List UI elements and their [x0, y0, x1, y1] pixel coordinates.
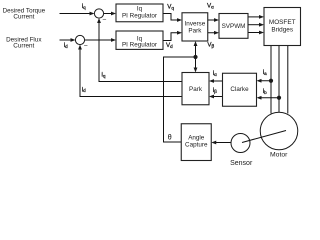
wire ia tap to Clarke: [258, 80, 271, 82]
arrowhead junction2 to B2: [111, 38, 116, 42]
PI regulator block B1: [116, 4, 163, 22]
svg-text:id: id: [64, 42, 68, 49]
svg-text:PI Regulator: PI Regulator: [122, 42, 157, 49]
svg-text:Vd: Vd: [166, 42, 173, 49]
wire motor phase a: [270, 46, 272, 114]
wire SVPWM to MOSFET 1: [248, 16, 263, 18]
wire Sensor to Angle Capture: [213, 142, 231, 144]
arrowhead theta into Park: [194, 68, 198, 73]
node dot ib tap: [277, 96, 281, 100]
arrowhead iq feedback into junction1: [97, 18, 101, 23]
wire theta Angle Capture to node A: [164, 57, 196, 142]
arrowhead Vbeta into SVPWM: [214, 31, 219, 35]
svg-text:ib: ib: [263, 88, 267, 95]
svg-text:Vq: Vq: [167, 4, 174, 11]
wire SVPWM to MOSFET 3: [248, 32, 263, 34]
wire Vbeta InversePark to SVPWM: [208, 32, 218, 34]
svg-text:Clarke: Clarke: [230, 86, 249, 93]
wire input id: [60, 39, 75, 41]
SVPWM block: [219, 14, 248, 39]
svg-text:SVPWM: SVPWM: [222, 23, 246, 30]
arrowhead theta into Inverse Park: [194, 41, 198, 46]
arrowhead MOSFET 1: [259, 15, 264, 19]
arrowhead input iq: [90, 12, 95, 16]
svg-text:iq: iq: [82, 3, 86, 10]
svg-text:PI Regulator: PI Regulator: [122, 13, 157, 20]
arrowhead Valpha into SVPWM: [214, 18, 219, 22]
sensor circle: [230, 134, 253, 168]
svg-text:Capture: Capture: [185, 142, 208, 149]
node A dot theta junction: [193, 55, 197, 59]
summing junction 2: [75, 35, 87, 49]
wire Valpha InversePark to SVPWM: [208, 19, 218, 21]
svg-text:Inverse: Inverse: [185, 20, 206, 27]
svg-text:iq: iq: [102, 71, 106, 78]
wire junction1 to B1: [104, 13, 115, 15]
PI regulator block B2: [116, 31, 163, 49]
wire theta node to Park: [195, 57, 197, 71]
wire input iq: [60, 13, 94, 15]
svg-text:MOSFET: MOSFET: [269, 19, 296, 26]
svg-text:θ: θ: [168, 135, 172, 142]
svg-text:Current: Current: [13, 43, 34, 50]
arrowhead input id: [71, 38, 76, 42]
MOSFET Bridges block: [264, 8, 301, 46]
Clarke block: [223, 73, 257, 106]
arrowhead ib into Clarke: [257, 96, 262, 100]
wire id feedback Park to junction2: [80, 46, 182, 96]
Inverse Park block: [182, 13, 208, 41]
shaft line Motor to Sensor: [242, 131, 286, 143]
svg-text:Park: Park: [188, 27, 202, 34]
svg-text:Sensor: Sensor: [230, 160, 253, 166]
wire motor phase b: [278, 46, 280, 113]
arrowhead ialpha into Park: [209, 79, 214, 83]
svg-text:Current: Current: [13, 14, 34, 21]
wire theta node to Inverse Park: [195, 43, 197, 57]
wire ialpha Clarke to Park: [211, 80, 223, 82]
svg-text:Motor: Motor: [270, 151, 288, 158]
arrowhead MOSFET 2: [259, 23, 264, 27]
svg-text:Iq: Iq: [137, 5, 143, 12]
svg-text:Angle: Angle: [188, 134, 205, 141]
node dot ia tap: [269, 79, 273, 83]
wire Vd B2 to Inverse Park: [163, 33, 181, 41]
summing junction 1: [94, 9, 106, 24]
wire iq feedback Park to junction1: [99, 20, 182, 82]
arrowhead Sensor into Angle Capture: [211, 141, 216, 145]
arrowhead MOSFET 3: [259, 31, 264, 35]
Angle Capture block: [181, 124, 211, 161]
wire junction2 to B2: [85, 39, 115, 41]
wire ib tap to Clarke: [258, 97, 279, 99]
svg-text:iβ: iβ: [213, 87, 217, 94]
arrowhead Vq into Inverse Park: [177, 18, 182, 22]
svg-text:iα: iα: [213, 70, 217, 77]
text Desired Flux Current: [6, 36, 42, 49]
motor circle: [260, 112, 298, 158]
arrowhead Vd into Inverse Park: [177, 31, 182, 35]
svg-text:ia: ia: [263, 69, 267, 76]
arrowhead id feedback into junction2: [78, 45, 82, 50]
wire motor phase c: [287, 46, 289, 114]
svg-text:Vα: Vα: [207, 3, 214, 10]
wire ibeta Clarke to Park: [211, 96, 223, 98]
wire Vq B1 to Inverse Park: [163, 14, 181, 21]
arrowhead ia into Clarke: [257, 79, 262, 83]
Park block: [182, 73, 209, 105]
wire SVPWM to MOSFET 2: [248, 24, 263, 26]
text Desired Torque Current: [3, 7, 46, 20]
svg-text:Bridges: Bridges: [271, 27, 293, 34]
svg-text:−: −: [102, 17, 106, 24]
svg-text:−: −: [84, 43, 88, 50]
arrowhead ibeta into Park: [209, 95, 214, 99]
svg-text:id: id: [82, 86, 86, 93]
svg-text:Park: Park: [189, 86, 203, 93]
arrowhead junction1 to B1: [111, 12, 116, 16]
svg-text:Vβ: Vβ: [207, 41, 214, 48]
